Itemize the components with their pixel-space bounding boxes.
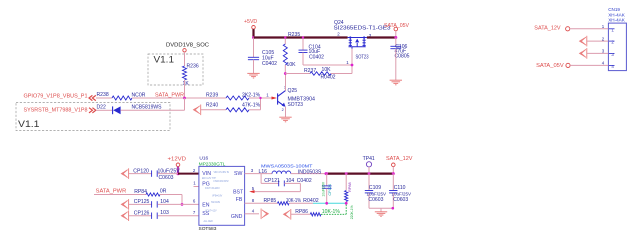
wire CN19 pin 1 — [570, 28, 609, 30]
wire R236 to SATA_PWR node — [184, 80, 186, 98]
wire Q25 emitter down — [285, 107, 287, 117]
wire U16 FB pin 8 to RP85 — [245, 202, 278, 204]
wire R235 to node — [284, 65, 286, 74]
transistor Q25 MMBT3904 SOT23 — [278, 91, 286, 106]
svg-text:XH-4AK: XH-4AK — [608, 18, 626, 23]
svg-text:SOT23: SOT23 — [356, 55, 369, 61]
svg-text:R238: R238 — [97, 92, 109, 98]
svg-text:RP86: RP86 — [295, 209, 308, 215]
ground for CP120 (rotated) — [121, 168, 128, 179]
wire CP120 to +12VD junction — [158, 173, 178, 175]
wire SYSRSTB to D22 — [96, 109, 112, 111]
pin arrow U16 BST pin 5 — [249, 190, 254, 193]
wire C109/C110 ground join — [369, 207, 393, 209]
svg-text:C0402: C0402 — [297, 178, 312, 184]
ground for CP125 (rotated) — [121, 199, 128, 210]
wire gnd to CP125 — [129, 203, 152, 205]
capacitor C104 10uF C0402 — [302, 38, 304, 51]
svg-text:1: 1 — [193, 181, 196, 186]
svg-text:RP85: RP85 — [264, 198, 277, 204]
junction +12VD on VIN wire — [176, 172, 179, 175]
svg-text:SI2365EDS-T1-GE3: SI2365EDS-T1-GE3 — [334, 26, 391, 32]
svg-text:NCB5819WS: NCB5819WS — [132, 105, 163, 111]
wire gate column — [351, 49, 353, 74]
svg-text:2: 2 — [337, 31, 340, 36]
svg-text:7: 7 — [193, 210, 196, 215]
resistor R236 1K — [183, 66, 187, 80]
wire CP125 to U16 EN pin 6 — [158, 203, 199, 205]
junction rail start — [325, 172, 328, 175]
svg-text:CP120: CP120 — [133, 169, 149, 175]
svg-text:+5VD: +5VD — [244, 19, 257, 25]
capacitor C105 10uF C0402 — [253, 38, 255, 58]
svg-text:8: 8 — [252, 198, 255, 203]
wire L16 to SATA_12V rail — [291, 173, 326, 175]
wire RP86 to FB node (green alt) — [321, 213, 346, 215]
wire CP126 to U16 SS pin 7 — [158, 215, 199, 217]
capacitor CP125 104 — [152, 201, 158, 207]
wire Q25 collector up — [285, 74, 287, 91]
wire CN19 pin 2 — [587, 40, 608, 42]
wire gnd to CP120 — [129, 173, 152, 175]
svg-text:RP84: RP84 — [134, 189, 147, 195]
svg-text:IOUT=3A MAX: IOUT=3A MAX — [205, 187, 220, 190]
svg-text:SS=1MS: SS=1MS — [211, 201, 220, 204]
svg-text:R0402: R0402 — [321, 74, 336, 80]
svg-text:C0402: C0402 — [309, 54, 324, 60]
svg-text:TP41: TP41 — [363, 156, 375, 162]
svg-text:104: 104 — [286, 178, 295, 184]
svg-text:1: 1 — [346, 60, 349, 65]
power rail SATA_12V (thick) — [326, 173, 393, 175]
svg-text:V1.1: V1.1 — [154, 54, 175, 64]
svg-text:10uF/25V: 10uF/25V — [392, 191, 412, 196]
svg-text:1K: 1K — [183, 81, 190, 87]
wire RP84 to EN node — [160, 194, 182, 196]
ground C106 — [390, 80, 402, 85]
svg-text:C0603: C0603 — [159, 175, 174, 181]
svg-text:GND: GND — [231, 214, 243, 220]
svg-text:4: 4 — [611, 64, 614, 69]
wire U16 GND pin 4 — [245, 213, 259, 215]
wire R237 line — [285, 73, 310, 75]
capacitor CP124 (vertical, FB filter) — [325, 172, 328, 175]
ground CN19 pin 3 (rotated) — [580, 48, 587, 59]
svg-text:D22: D22 — [97, 104, 107, 110]
svg-text:SATA_PWR: SATA_PWR — [96, 189, 127, 195]
svg-text:EN: EN — [202, 203, 209, 209]
resistor R235 10K — [284, 38, 286, 45]
dashed revision box V1.1 (top) — [148, 54, 203, 85]
svg-text:10uF/25V: 10uF/25V — [367, 191, 387, 196]
svg-text:C0603: C0603 — [393, 197, 408, 203]
svg-text:220K-1%: 220K-1% — [350, 205, 354, 219]
svg-text:VIN=4.5-36V IN: VIN=4.5-36V IN — [214, 171, 230, 174]
ground for CP126 (rotated) — [121, 210, 128, 221]
svg-text:U16: U16 — [199, 156, 208, 162]
svg-text:ALL CER: ALL CER — [204, 220, 214, 223]
svg-text:6: 6 — [193, 198, 196, 203]
wire SATA_PWR to RP84 — [94, 194, 146, 196]
svg-text:0R: 0R — [160, 188, 167, 194]
wire R239 to Q25 base — [249, 97, 272, 99]
wire C104 bottom to gate node — [302, 53, 304, 66]
svg-text:FSW=430 KHZ: FSW=430 KHZ — [214, 180, 230, 183]
wire R238 to node SATA_PWR — [132, 97, 226, 99]
junction node R235/R237/Q25 — [284, 72, 287, 75]
svg-text:SATA_12V: SATA_12V — [534, 26, 561, 32]
ground Q25 emitter — [279, 117, 291, 122]
svg-text:L16: L16 — [259, 169, 268, 175]
off-page connector chevrons SYSRSTB — [89, 108, 96, 113]
capacitor CP126 103 — [152, 213, 158, 219]
ground U16 GND (rotated, flipped) — [261, 209, 268, 220]
svg-text:R239: R239 — [206, 92, 218, 98]
svg-text:10K: 10K — [322, 67, 332, 73]
junction +5VD on rail — [252, 36, 255, 39]
svg-text:R235: R235 — [288, 32, 300, 38]
wire C106 to ground — [395, 49, 397, 80]
wire R240 to junction — [249, 109, 261, 111]
svg-text:VOUT=12V: VOUT=12V — [205, 210, 217, 213]
capacitor C109 10uF/25V C0603 — [368, 174, 370, 191]
svg-text:CP121: CP121 — [264, 178, 280, 184]
svg-text:3: 3 — [611, 52, 614, 57]
svg-text:R240: R240 — [206, 102, 218, 108]
ground for RP86 (rotated) — [284, 209, 291, 220]
svg-text:2: 2 — [282, 108, 284, 112]
capacitor CP121 104 C0402 (BST) — [260, 174, 262, 184]
svg-text:C109: C109 — [369, 185, 381, 191]
svg-text:2: 2 — [611, 40, 614, 45]
ground C105 — [247, 73, 259, 78]
svg-text:SATA_12V: SATA_12V — [386, 156, 413, 162]
wire +12VD junction to U16 VIN pin 2 (thick) — [178, 173, 199, 175]
svg-text:CP126: CP126 — [134, 211, 150, 217]
svg-text:C0603: C0603 — [368, 197, 383, 203]
wire gnd to R240 — [201, 109, 226, 111]
ground CN19 pin 2 (rotated) — [580, 36, 587, 47]
svg-text:10K: 10K — [287, 62, 297, 68]
svg-text:C0402: C0402 — [262, 61, 277, 67]
off-page connector chevrons GPIO79 — [89, 95, 96, 100]
resistor RP88 220K-1% (vertical FB divider) — [345, 172, 348, 175]
svg-text:+12VD: +12VD — [168, 157, 187, 163]
svg-text:DVDD1V8_SOC: DVDD1V8_SOC — [166, 43, 209, 49]
svg-text:1: 1 — [266, 92, 269, 97]
svg-text:SYSRSTB_MT7988_V1P8: SYSRSTB_MT7988_V1P8 — [24, 107, 88, 113]
capacitor C106 47uF C0805 — [395, 38, 397, 47]
svg-text:R236: R236 — [187, 64, 199, 70]
wire GPIO79 to R238 — [96, 97, 112, 99]
junction EN node — [181, 203, 184, 206]
svg-text:IND0503S: IND0503S — [298, 169, 322, 175]
svg-text:SOT23: SOT23 — [288, 102, 304, 108]
svg-text:3: 3 — [251, 168, 254, 173]
svg-text:4: 4 — [252, 208, 255, 213]
capacitor CP120 10uF/25V C0603 — [152, 170, 158, 176]
wire gnd to RP86 — [291, 213, 311, 215]
wire CN19 pin 3 — [587, 52, 608, 54]
ground C109/C110 — [375, 212, 387, 217]
svg-text:SOT583: SOT583 — [199, 226, 217, 232]
ground for R240 (rotated) — [194, 105, 201, 116]
dashed revision box V1.1 (bottom-left) — [16, 103, 170, 131]
power rail Q24 to SATA_05V (thick) — [367, 36, 396, 38]
svg-text:FB: FB — [236, 197, 243, 203]
pin stub U16 PG pin 1 — [194, 186, 199, 188]
wire C105 to ground — [253, 60, 255, 73]
junction node SATA_PWR — [183, 97, 186, 100]
svg-text:C0805: C0805 — [395, 53, 410, 59]
svg-text:C110: C110 — [394, 185, 406, 191]
junction gate node — [351, 64, 354, 67]
wire CN19 pin 4 — [570, 64, 608, 66]
svg-text:GPIO79_V1P8_VBUS_P1: GPIO79_V1P8_VBUS_P1 — [24, 93, 88, 99]
svg-text:47K-1%: 47K-1% — [242, 102, 261, 108]
svg-text:V1.1: V1.1 — [18, 119, 40, 129]
svg-text:SW: SW — [234, 171, 242, 177]
svg-text:2: 2 — [193, 168, 196, 173]
svg-text:Q25: Q25 — [288, 88, 298, 94]
svg-text:BST: BST — [233, 189, 244, 195]
wire DVDD1V8_SOC to R236 — [184, 52, 186, 66]
wire U16 SW pin 3 to L16 — [245, 173, 272, 175]
wire D22 cathode to SATA_PWR node — [121, 109, 185, 111]
capacitor C110 10uF/25V C0603 — [392, 174, 394, 191]
svg-text:RP88: RP88 — [348, 182, 352, 192]
svg-text:VFB=0.8V: VFB=0.8V — [212, 195, 223, 198]
svg-text:SATA_05V: SATA_05V — [536, 63, 564, 69]
wire gnd to CP126 — [129, 215, 152, 217]
svg-text:1: 1 — [611, 27, 614, 32]
power rail +5VD to Q24 (thick) — [254, 36, 348, 38]
svg-text:CP124: CP124 — [328, 184, 332, 196]
svg-text:SATA_PWR: SATA_PWR — [155, 92, 184, 98]
wire RP85 to FB divider (cyan) — [289, 202, 313, 204]
svg-text:CP125: CP125 — [134, 199, 150, 205]
node R239/R240 junction — [260, 98, 262, 110]
svg-text:10uF/25V: 10uF/25V — [322, 181, 326, 196]
